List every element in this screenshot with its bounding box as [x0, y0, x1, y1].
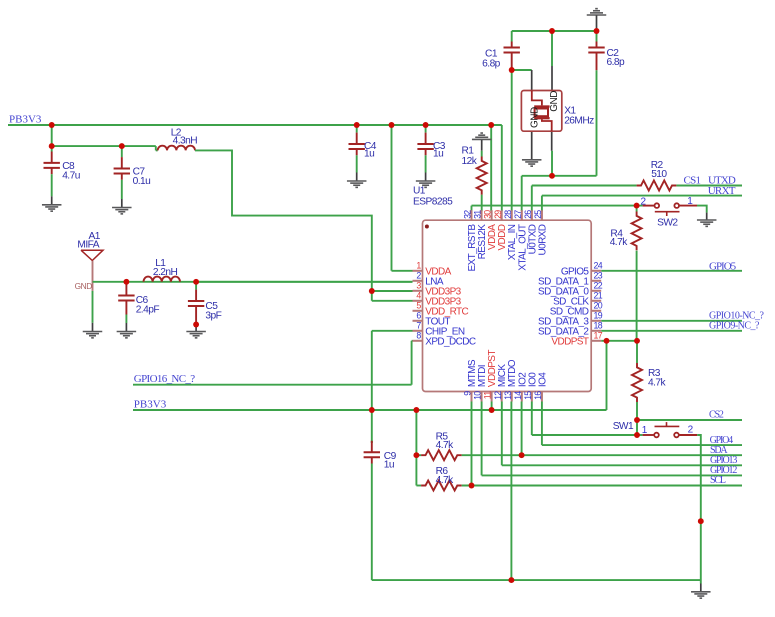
svg-text:GPIO5: GPIO5: [709, 260, 737, 272]
svg-text:4.7u: 4.7u: [62, 170, 80, 181]
svg-text:1: 1: [642, 425, 648, 436]
svg-text:URXT: URXT: [708, 185, 736, 197]
svg-text:19: 19: [594, 311, 603, 321]
svg-text:2.2nH: 2.2nH: [153, 267, 178, 278]
svg-text:CS1: CS1: [684, 174, 701, 186]
svg-text:2: 2: [641, 197, 647, 208]
svg-text:21: 21: [594, 291, 603, 301]
svg-text:14: 14: [513, 391, 523, 400]
svg-text:28: 28: [503, 210, 513, 219]
svg-text:11: 11: [483, 391, 493, 400]
svg-text:26MHz: 26MHz: [564, 116, 594, 127]
svg-text:4.7k: 4.7k: [436, 440, 455, 451]
svg-text:1u: 1u: [384, 460, 394, 471]
svg-text:16: 16: [533, 391, 543, 400]
svg-text:GPIO16_NC_?: GPIO16_NC_?: [134, 373, 195, 385]
svg-text:10: 10: [473, 391, 483, 400]
svg-text:4.7k: 4.7k: [436, 475, 455, 486]
svg-text:U0RXD: U0RXD: [537, 224, 548, 255]
svg-text:CS2: CS2: [709, 410, 724, 421]
svg-text:20: 20: [594, 301, 603, 311]
svg-text:30: 30: [483, 210, 493, 219]
svg-text:6.8p: 6.8p: [482, 59, 501, 70]
svg-text:IO4: IO4: [537, 372, 548, 387]
svg-text:13: 13: [503, 391, 513, 400]
svg-text:0.1u: 0.1u: [133, 176, 151, 187]
svg-text:GPIO9-NC_?: GPIO9-NC_?: [709, 320, 760, 331]
svg-text:SW1: SW1: [613, 421, 634, 432]
svg-text:29: 29: [493, 210, 503, 219]
svg-text:GND: GND: [529, 107, 540, 128]
svg-text:1u: 1u: [433, 149, 443, 160]
svg-text:GND: GND: [549, 91, 560, 112]
svg-text:U1: U1: [413, 186, 426, 197]
svg-text:PB3V3: PB3V3: [134, 399, 167, 411]
svg-text:4.7k: 4.7k: [610, 237, 629, 248]
svg-text:MIFA: MIFA: [77, 240, 99, 251]
svg-text:1: 1: [687, 196, 693, 207]
svg-text:GND: GND: [75, 281, 93, 291]
svg-text:1u: 1u: [364, 149, 374, 160]
svg-text:26: 26: [523, 210, 533, 219]
svg-text:24: 24: [594, 261, 603, 271]
svg-text:12k: 12k: [462, 156, 478, 167]
svg-text:2.4pF: 2.4pF: [136, 305, 160, 316]
svg-text:31: 31: [473, 210, 483, 219]
svg-text:18: 18: [594, 321, 603, 331]
svg-text:32: 32: [463, 210, 473, 219]
svg-text:3pF: 3pF: [205, 310, 221, 321]
svg-text:R1: R1: [462, 146, 475, 157]
svg-text:4.3nH: 4.3nH: [173, 135, 198, 146]
svg-text:2: 2: [688, 425, 694, 436]
svg-text:6.8p: 6.8p: [607, 57, 626, 68]
svg-text:XPD_DCDC: XPD_DCDC: [425, 336, 476, 347]
svg-text:25: 25: [533, 210, 543, 219]
svg-text:23: 23: [594, 271, 603, 281]
svg-text:4.7k: 4.7k: [648, 377, 667, 388]
svg-text:VDDPST: VDDPST: [551, 336, 588, 347]
svg-text:SW2: SW2: [657, 218, 678, 229]
svg-text:ESP8285: ESP8285: [413, 196, 453, 207]
svg-text:15: 15: [523, 391, 533, 400]
svg-text:22: 22: [594, 281, 603, 291]
svg-text:510: 510: [651, 169, 667, 180]
svg-text:SCL: SCL: [710, 475, 726, 486]
svg-text:27: 27: [513, 210, 523, 219]
svg-text:12: 12: [493, 391, 503, 400]
svg-text:17: 17: [594, 331, 603, 341]
svg-text:PB3V3: PB3V3: [9, 114, 42, 126]
